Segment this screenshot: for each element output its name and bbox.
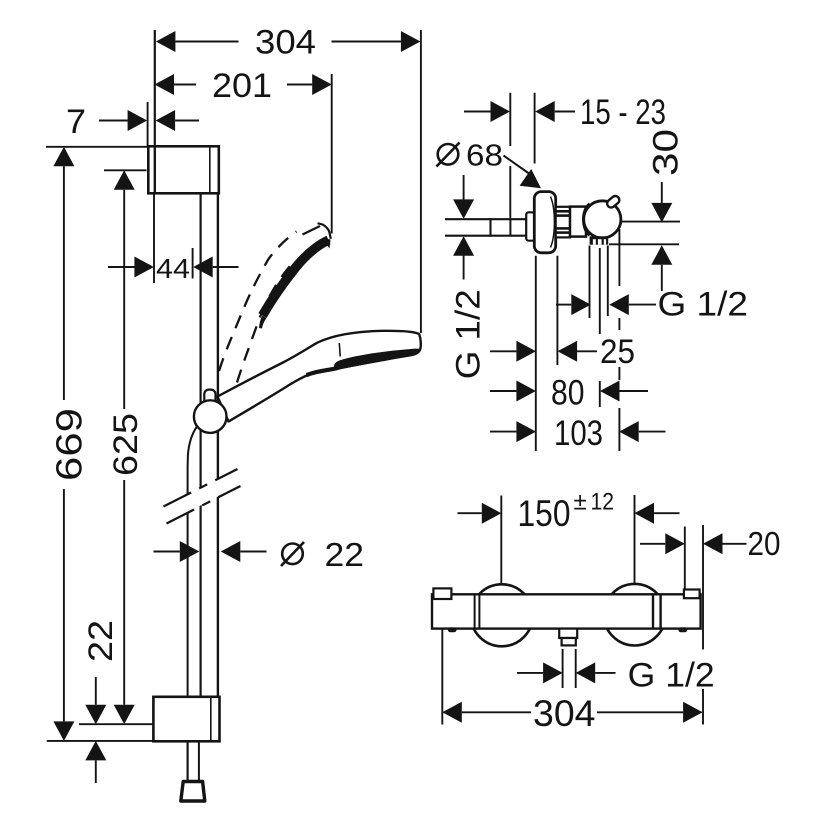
- svg-text:68: 68: [466, 138, 503, 173]
- outlet left extension line: [589, 246, 591, 319]
- left wall tab: [433, 588, 451, 599]
- dimension 201 extension line right (raised head edge): [331, 74, 333, 234]
- top wall bracket: [148, 146, 219, 193]
- outlet connection lower: [562, 638, 576, 645]
- leader line diameter 68: [504, 156, 542, 189]
- dimension 625 bottom extension line: [79, 723, 153, 725]
- outlet centerline: [599, 248, 601, 407]
- dim 304 bottom extension line left: [441, 630, 443, 725]
- svg-text:G 1/2: G 1/2: [658, 286, 749, 324]
- diameter symbol of dim 22: [281, 536, 364, 573]
- hose end cone: [181, 782, 205, 802]
- raised head spray face (dark band): [259, 238, 331, 329]
- raised hand shower dashed outline right: [237, 264, 292, 383]
- dimension 669 bottom extension line: [47, 740, 153, 742]
- wall flange disc (side view): [534, 192, 555, 253]
- bottom wall bracket: [153, 697, 219, 742]
- dimension 669: [49, 147, 90, 741]
- label diameter 68: [437, 138, 504, 173]
- svg-text:±: ±: [574, 489, 587, 516]
- spray face of hand shower (dark): [335, 350, 419, 369]
- handle knob inner arc: [583, 204, 589, 236]
- dimension 625 top extension line: [104, 169, 147, 171]
- valve body block: [570, 207, 586, 237]
- raised head corner solid: [318, 223, 331, 239]
- handle lower edge thickening: [307, 368, 337, 375]
- dim 30 upper extension line: [622, 221, 680, 223]
- svg-text:103: 103: [554, 414, 603, 453]
- handle lever nub: [605, 194, 620, 209]
- supply pipe joint line: [509, 219, 511, 236]
- svg-text:150: 150: [518, 493, 571, 534]
- outlet connection upper: [559, 629, 577, 638]
- dimension G 1/2 bottom: [517, 657, 715, 695]
- rail right edge: [217, 193, 219, 697]
- hose from holder down: [188, 427, 197, 782]
- dimension diameter 22: [154, 541, 267, 562]
- dimension 201: [155, 67, 332, 105]
- supply pipe top edge w/ extension: [445, 218, 528, 220]
- svg-text:15 - 23: 15 - 23: [580, 93, 666, 132]
- dimension 7: [66, 103, 199, 141]
- dim 20 extension line right: [702, 525, 704, 725]
- svg-text:304: 304: [255, 24, 316, 62]
- wall plane extension below bracket: [153, 193, 155, 283]
- dim 15-23 extension line right: [534, 93, 536, 164]
- dimension 80: [490, 373, 648, 412]
- right foot: [678, 627, 687, 632]
- dimension 25: [490, 333, 635, 371]
- dimension 44: [108, 253, 239, 284]
- dimension 30: [647, 129, 686, 291]
- raised head top dashed edge: [303, 226, 321, 235]
- dimension 44 extension line (rail front plane): [192, 248, 194, 279]
- rail break symbol: [164, 469, 242, 524]
- dim 20 extension line left: [684, 527, 686, 590]
- dimension G 1/2 right: [556, 286, 748, 324]
- hand shower handle and head: [218, 331, 421, 422]
- threaded section: [556, 207, 570, 238]
- holder knob: [204, 390, 215, 406]
- threaded section ribs: [556, 211, 570, 232]
- dim 25/80/103 wall extension line: [535, 256, 537, 451]
- top bracket inner line (wall plane through): [154, 146, 156, 193]
- svg-text:7: 7: [66, 103, 86, 141]
- dimension 304 bottom: [442, 693, 702, 734]
- svg-text:22: 22: [82, 620, 120, 662]
- dimension G 1/2 left (pipe thread): [450, 175, 488, 379]
- svg-text:625: 625: [107, 413, 145, 476]
- pipe bell toward flange: [526, 212, 534, 240]
- dimension 7 extension line (bracket front): [147, 102, 149, 146]
- supply pipe bottom edge w/ extension: [445, 235, 535, 237]
- dimension 103: [490, 414, 666, 453]
- dimension 304 extension line right (shower head edge): [420, 30, 422, 333]
- dimension 150 +-12: [458, 489, 680, 534]
- hose below bracket left edge: [187, 741, 189, 781]
- dimension 669 top extension line: [46, 146, 148, 148]
- supply pipe end cap: [489, 218, 491, 237]
- dim 25 right extension line: [556, 256, 558, 365]
- dimension 22: [82, 620, 120, 783]
- svg-text:20: 20: [748, 525, 781, 562]
- svg-text:G 1/2: G 1/2: [450, 289, 488, 379]
- outlet right extension line: [607, 246, 609, 317]
- top bracket inner line right: [209, 146, 211, 193]
- right body joint lines: [653, 594, 661, 628]
- dim 30 lower extension line: [609, 243, 679, 245]
- dimension 20: [640, 525, 781, 562]
- svg-text:25: 25: [600, 333, 635, 371]
- knob face extension line (dashed): [618, 229, 620, 451]
- left foot: [448, 627, 457, 632]
- right wall tab: [684, 590, 700, 599]
- svg-text:12: 12: [591, 489, 615, 516]
- svg-text:30: 30: [647, 129, 686, 176]
- raised hand shower dashed outline left: [219, 232, 297, 372]
- flange cylinder shading arc: [551, 197, 555, 248]
- svg-text:201: 201: [212, 67, 272, 105]
- dimension 304: [156, 24, 421, 62]
- dim 15-23 extension line left: [509, 93, 511, 218]
- svg-text:22: 22: [325, 536, 365, 573]
- outlet nut (ribbed): [590, 236, 609, 244]
- left escutcheon circle: [471, 584, 533, 646]
- dimension 15-23: [464, 93, 666, 132]
- svg-text:669: 669: [49, 408, 90, 481]
- rail left edge: [200, 193, 202, 697]
- bottom bracket inner line: [210, 697, 212, 742]
- dimension 625: [107, 170, 145, 724]
- dim 150 extension line right: [634, 495, 636, 584]
- handle knob circle: [584, 201, 621, 238]
- jet ring tick: [338, 343, 341, 357]
- dimension 304 extension line left (wall plane): [154, 30, 156, 146]
- right escutcheon circle: [604, 584, 666, 646]
- svg-text:80: 80: [551, 373, 585, 412]
- hose below bracket right edge: [198, 741, 200, 781]
- dim G 1/2 bottom extension lines: [563, 649, 576, 688]
- svg-text:G 1/2: G 1/2: [628, 657, 715, 695]
- left body joint lines: [475, 594, 480, 628]
- mixer body bar: [432, 594, 701, 628]
- holder slider circle: [194, 400, 227, 433]
- dim 150 extension line left: [500, 496, 502, 584]
- svg-text:304: 304: [533, 693, 596, 734]
- svg-text:44: 44: [156, 253, 190, 284]
